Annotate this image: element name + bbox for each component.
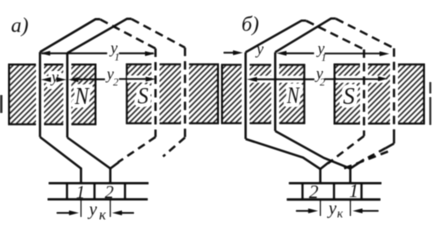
svg-text:N: N xyxy=(74,82,90,109)
coil side (dashed) right outer (fig b) xyxy=(393,48,395,131)
yk extension lines xyxy=(81,201,110,218)
yk left arrow xyxy=(57,212,70,214)
dim y2 (fig a): left arrow at inner leg, line, label, right arrow xyxy=(68,77,78,82)
yk extension lines (fig b) xyxy=(320,201,350,217)
white halo for coil sides through pole N (fig b) xyxy=(246,62,276,127)
svg-text:к: к xyxy=(99,208,107,224)
dim y1 (fig b): left arrow at inner leg, line, label, right arrow xyxy=(277,51,287,56)
bottom end dashed: right inner to riser 2 xyxy=(118,137,156,162)
end winding top dashed: peak to right inner xyxy=(100,19,155,48)
pole N (fig b) hatched xyxy=(222,65,304,123)
commutator segment ticks xyxy=(67,183,125,199)
coil side (solid) left outer, slot conductor xyxy=(39,52,41,137)
scan artifact left edge xyxy=(0,95,3,113)
end winding top dashed: peak2 to right outer (fig b) xyxy=(336,19,394,49)
svg-text:1: 1 xyxy=(114,52,120,64)
white halo for dim y2 line over pole S xyxy=(127,76,150,83)
svg-text:у: у xyxy=(87,199,97,219)
svg-text:у: у xyxy=(327,198,337,218)
end winding top solid to peak 1 (fig b) xyxy=(246,21,307,53)
pole S (fig b) hatched xyxy=(335,64,425,123)
svg-text:к: к xyxy=(337,205,344,220)
bottom end dashed stub: right outer, to next segment (cut) xyxy=(163,138,185,157)
dim y2 (fig b): left arrow at outer leg, line, label, right arrow xyxy=(247,77,257,82)
coil side (solid) left inner, slot conductor xyxy=(66,53,68,138)
bottom end: inner left leg to riser 2 xyxy=(67,138,110,184)
coil side (solid) left outer (fig b) xyxy=(244,52,246,139)
coil side (solid) left inner (fig b) xyxy=(274,52,276,131)
svg-text:N: N xyxy=(286,82,300,109)
white halo for coil sides through pole N xyxy=(40,62,67,127)
svg-text:2: 2 xyxy=(105,182,114,202)
pole S (fig a) hatched xyxy=(127,64,218,123)
svg-text:а): а) xyxy=(11,13,29,37)
bottom: outer solid leg to riser A (crossed) xyxy=(246,139,321,183)
commutator segment ticks (fig b) xyxy=(303,183,362,199)
white halo for dashed coil sides through pole S xyxy=(156,62,186,127)
dim y1 (fig a): line, arrows, label xyxy=(42,52,154,54)
bottom end: outer left leg to riser 1 xyxy=(40,137,81,183)
commutator (fig a) bottom bar line xyxy=(48,198,148,200)
yk left arrow (fig b) xyxy=(296,210,309,212)
scan artifact right edge xyxy=(429,82,431,125)
svg-text:S: S xyxy=(138,83,149,109)
bottom: outer dashed leg down-left to riser B xyxy=(386,144,395,149)
coil side (dashed) right outer xyxy=(184,48,186,138)
svg-text:1: 1 xyxy=(321,52,327,64)
commutator (fig b) bottom bar line xyxy=(287,198,381,200)
svg-text:2: 2 xyxy=(320,77,326,89)
yk right arrow (fig b) xyxy=(362,210,379,212)
white halo for dashed coil sides through pole S (fig b) xyxy=(364,62,394,127)
commutator (fig b) top bar line xyxy=(289,182,382,184)
bottom: inner solid leg to riser B (crossed) xyxy=(275,131,350,183)
svg-text:2: 2 xyxy=(309,182,319,203)
svg-text:2: 2 xyxy=(113,76,119,88)
svg-text:б): б) xyxy=(242,12,260,36)
end winding top dashed: peak to right outer xyxy=(132,19,186,48)
commutator (fig a) top bar line xyxy=(49,182,149,184)
svg-text:1: 1 xyxy=(76,182,85,202)
svg-text:S: S xyxy=(343,84,355,110)
bottom dashed: inner dashed leg down-left to riser A xyxy=(328,136,364,163)
bottom dashed stub: previous coil end (cut) xyxy=(343,152,388,169)
right outer leg solid stub (fig b) xyxy=(393,131,395,144)
end winding top solid to peak 2 (fig b) xyxy=(275,19,336,53)
svg-text:1: 1 xyxy=(349,181,359,202)
coil side (dashed) right inner (fig b) xyxy=(363,49,365,136)
pole N (fig a) hatched xyxy=(9,65,96,125)
svg-text:у: у xyxy=(255,41,265,58)
dim y (fig b): arrow from outside left xyxy=(224,52,235,54)
svg-text:у: у xyxy=(50,69,60,86)
yk right arrow xyxy=(121,212,134,214)
white halo for dim y line in pole N xyxy=(42,76,66,83)
white halo for dim y2 (fig b) xyxy=(248,76,386,83)
end winding top solid: outer left to peak xyxy=(40,19,100,52)
end winding top dashed: peak1 to right inner (fig b) xyxy=(306,21,364,50)
coil side (dashed) right inner xyxy=(154,49,156,138)
end winding top solid: inner left to peak xyxy=(67,19,131,53)
